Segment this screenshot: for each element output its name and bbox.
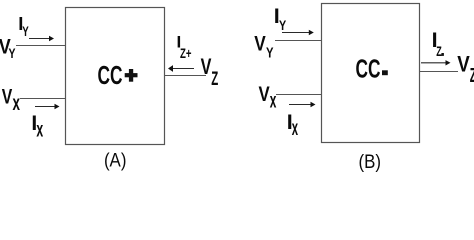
svg-text:(A): (A)	[104, 151, 127, 172]
svg-text:Z: Z	[436, 43, 442, 59]
svg-text:x: x	[36, 118, 43, 142]
svg-text:Z: Z	[211, 69, 218, 90]
svg-text:Y: Y	[279, 17, 287, 33]
svg-text:V: V	[2, 85, 13, 109]
svg-text:Y: Y	[9, 45, 16, 61]
svg-text:(B): (B)	[359, 152, 382, 172]
svg-text:Z: Z	[470, 65, 474, 87]
svg-text:Y: Y	[266, 44, 274, 61]
svg-text:CC: CC	[356, 56, 381, 84]
svg-text:V: V	[457, 52, 470, 77]
svg-text:V: V	[259, 82, 271, 106]
svg-text:V: V	[254, 31, 266, 55]
svg-text:x: x	[270, 89, 277, 113]
svg-text:Z+: Z+	[180, 45, 192, 61]
svg-text:V: V	[201, 54, 212, 79]
svg-text:Y: Y	[22, 23, 29, 39]
svg-text:CC: CC	[98, 62, 123, 90]
svg-text:x: x	[13, 91, 21, 115]
svg-text:x: x	[292, 116, 298, 140]
